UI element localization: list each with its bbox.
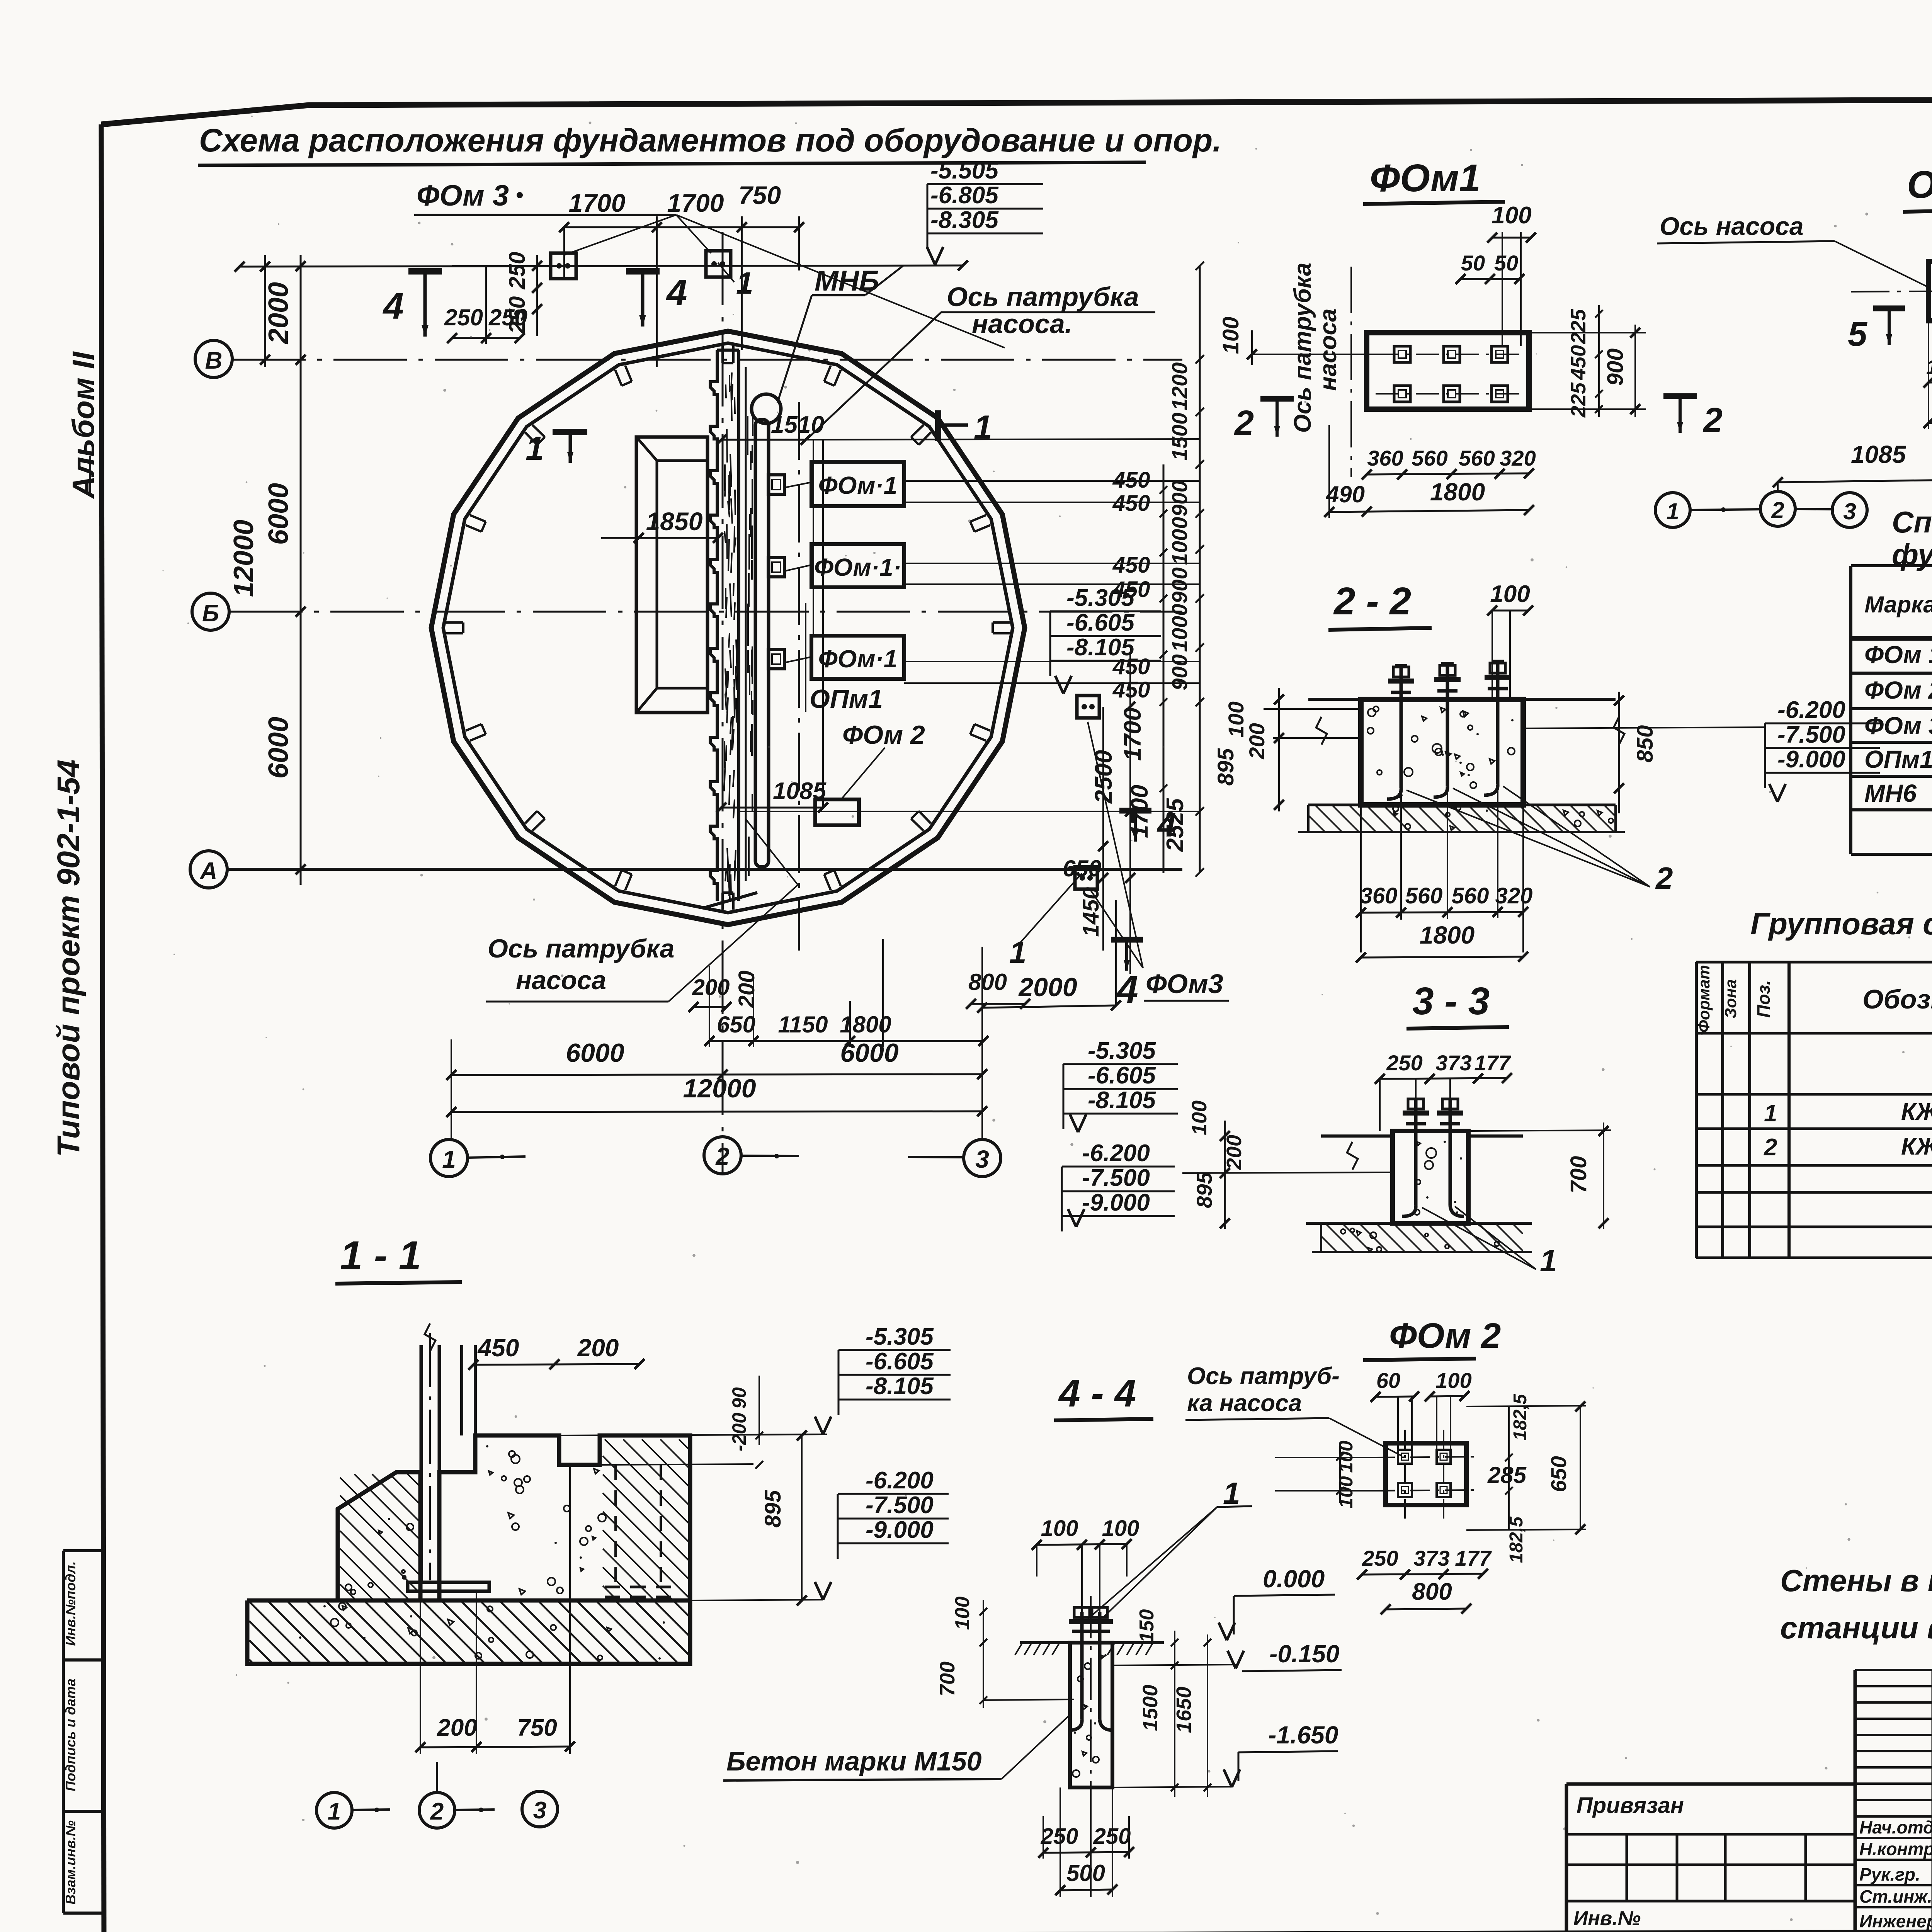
svg-text:650: 650 [1546,1456,1571,1492]
svg-text:Рук.гр.: Рук.гр. [1859,1864,1920,1884]
1-1 embedded pit dashed [614,1465,617,1587]
svg-text:Инв.№: Инв.№ [1573,1907,1641,1930]
svg-text:100: 100 [1435,1368,1471,1393]
svg-text:Схема расположения фундамент: Схема расположения фундаментов под обору… [199,122,1222,158]
svg-text:насоса: насоса [1315,308,1342,391]
svg-text:-9.000: -9.000 [1082,1189,1150,1216]
svg-text:-5.305: -5.305 [1066,585,1135,611]
svg-text:560: 560 [1405,883,1443,908]
svg-text:Ось насоса: Ось насоса [1660,212,1804,240]
svg-text:100: 100 [951,1597,974,1630]
svg-text:-1.650: -1.650 [1268,1721,1338,1749]
section mark 2 left [1260,396,1294,402]
svg-text:895: 895 [760,1490,786,1528]
svg-text:ФОм·1: ФОм·1 [818,471,898,499]
svg-text:А: А [199,858,218,884]
fOm1 axis dashdot lines [1376,354,1522,355]
svg-text:6000: 6000 [263,717,294,779]
4-4 bolts [1080,1612,1084,1719]
svg-text:ФОм 3: ФОм 3 [417,179,509,212]
svg-text:200: 200 [577,1334,619,1362]
svg-text:285: 285 [1487,1462,1527,1488]
svg-text:800: 800 [1412,1578,1452,1605]
svg-text:1 - 1: 1 - 1 [340,1233,421,1278]
wall segment joint notches [993,621,1010,624]
svg-text:560: 560 [1459,446,1495,470]
svg-text:Нач.отд.: Нач.отд. [1859,1817,1932,1837]
svg-text:Б: Б [202,600,219,627]
svg-text:1: 1 [526,430,544,467]
svg-text:Зона: Зона [1721,979,1740,1018]
svg-text:6000: 6000 [840,1038,898,1068]
anchor square plan 2 [768,558,784,577]
1-1 left pedestal (hatched) [338,1472,420,1600]
svg-text:1000: 1000 [1167,517,1192,565]
svg-text:0.000: 0.000 [1263,1565,1325,1593]
svg-text:-6.605: -6.605 [866,1348,934,1375]
svg-text:-8.105: -8.105 [1066,634,1135,661]
svg-text:200: 200 [1223,1135,1246,1170]
svg-text:Ось патрубка: Ось патрубка [1289,263,1316,433]
1-1 axis circles [316,1793,352,1828]
svg-text:50: 50 [1494,251,1518,275]
svg-text:373: 373 [1435,1051,1471,1075]
svg-text:895: 895 [1192,1172,1216,1208]
right anchor square fOm3 lower [1075,867,1097,889]
svg-text:Типовой проект 902-1-54: Типовой проект 902-1-54 [51,759,86,1157]
anchor square fOm3 plan row1 [551,253,576,279]
svg-text:1800: 1800 [1420,921,1475,949]
4-4 pier axis [1090,1596,1092,1808]
svg-text:250: 250 [444,304,483,330]
section mark 1 right [935,410,941,441]
svg-text:1850: 1850 [646,507,703,536]
svg-text:12000: 12000 [228,520,259,597]
central wall with joint notches (zigzag) [710,350,717,901]
svg-text:100: 100 [1041,1516,1078,1541]
svg-text:-6.605: -6.605 [1088,1062,1156,1089]
svg-text:750: 750 [738,181,781,209]
svg-text:6000: 6000 [263,483,294,545]
svg-text:ФОм 1: ФОм 1 [1864,641,1932,668]
svg-text:-9.000: -9.000 [866,1517,934,1543]
svg-text:Подпись и дата: Подпись и дата [63,1679,78,1791]
svg-text:50: 50 [1461,251,1485,275]
svg-text:Инженер: Инженер [1859,1911,1932,1931]
svg-text:100: 100 [1218,317,1243,354]
svg-text:Формат: Формат [1695,965,1713,1032]
svg-text:Ось патрубка: Ось патрубка [947,282,1139,312]
svg-text:3: 3 [1843,498,1856,524]
svg-text:360: 360 [1360,883,1398,908]
svg-text:4 - 4: 4 - 4 [1058,1372,1136,1415]
3-3 block [1393,1131,1468,1223]
long rail column in plan [755,420,769,867]
svg-text:КЖ- 9: КЖ- 9 [1901,1099,1932,1125]
svg-text:3: 3 [975,1145,989,1173]
pump nozzle axis (vertical dash-dot) [798,402,800,951]
2-2 foundation block [1361,699,1523,805]
svg-text:-6.200: -6.200 [1082,1140,1150,1167]
svg-text:2: 2 [1234,404,1254,442]
svg-text:ФОм 2: ФОм 2 [1389,1316,1501,1355]
svg-text:1085: 1085 [773,778,827,804]
svg-text:Взам.инв.№: Взам.инв.№ [63,1820,78,1905]
axis B circle [195,340,232,378]
svg-text:1: 1 [1666,498,1679,524]
svg-text:2: 2 [1771,497,1784,523]
2-2 anchor bolts [1400,666,1403,788]
spec table 1 grid [1849,566,1852,854]
svg-text:650: 650 [717,1012,755,1037]
section mark 4 right upper [1119,808,1151,814]
svg-text:1: 1 [1223,1476,1240,1510]
svg-text:ФОм1: ФОм1 [1370,156,1481,200]
pump station circular wall (16-gon) outer [431,331,1025,925]
svg-text:250: 250 [1362,1546,1398,1570]
svg-text:1800: 1800 [1430,478,1485,506]
pump station circular wall inner line [443,343,1013,913]
right horizontal leader lines [904,480,1200,482]
svg-text:225: 225 [1567,382,1590,418]
axis Б circle [192,593,229,630]
svg-text:700: 700 [936,1662,959,1696]
svg-text:ФОм 2: ФОм 2 [1864,676,1932,704]
plan axis circle 2 [704,1137,741,1174]
svg-text:В: В [205,347,223,374]
svg-text:900: 900 [1167,480,1192,516]
svg-text:насоса.: насоса. [972,309,1072,339]
svg-text:225: 225 [1567,309,1590,344]
top and bottom wall closure [717,349,739,352]
svg-text:100: 100 [1490,581,1530,607]
privyazan box [1566,1782,1855,1786]
svg-text:895: 895 [1213,748,1238,786]
axis A circle [190,851,227,888]
svg-text:-7.500: -7.500 [1777,721,1845,748]
1-1 pump column [420,1345,423,1582]
svg-text:450: 450 [1112,491,1150,516]
right anchor square fOm3 upper [1077,696,1099,718]
svg-text:1200: 1200 [1167,362,1192,411]
anchor square plan 3 [768,650,784,669]
anchor square fOm3 row1 right [706,251,731,277]
svg-text:-5.305: -5.305 [866,1323,934,1350]
section mark 1 left (T down) [553,429,587,435]
svg-text:1700: 1700 [569,189,626,217]
svg-text:Привязан: Привязан [1577,1793,1684,1818]
fOm-1 box 2 [811,544,904,587]
machine pit beveled frame [636,437,707,713]
svg-text:-6.605: -6.605 [1066,609,1135,636]
1-1 base plate [408,1582,489,1591]
svg-text:1: 1 [736,266,753,300]
leader verticals right of wall [813,440,814,634]
svg-text:ФОм 3: ФОм 3 [1864,712,1932,740]
1-1 right block with notch [439,1435,690,1600]
svg-text:100: 100 [1335,1440,1357,1473]
section mark 5 left [1873,306,1905,311]
OPm1 axis dashdot [1851,291,1932,292]
svg-text:1500: 1500 [1167,413,1192,461]
leaders from squares to boxes [784,482,811,488]
svg-text:-200: -200 [728,1413,750,1451]
svg-text:2 - 2: 2 - 2 [1333,580,1411,623]
svg-text:2: 2 [715,1143,730,1170]
svg-text:373: 373 [1413,1546,1449,1570]
svg-text:Н.контр.: Н.контр. [1859,1839,1932,1859]
sump circle MN6 [752,394,781,423]
svg-text:3 - 3: 3 - 3 [1412,980,1490,1023]
svg-text:2000: 2000 [263,282,294,345]
svg-text:-7.500: -7.500 [1082,1165,1150,1191]
axis B line [232,359,1182,361]
svg-text:КЖ-9: КЖ-9 [1901,1133,1932,1160]
section mark 2 right [1663,393,1697,399]
svg-text:Ст.инж.: Ст.инж. [1859,1886,1932,1906]
svg-text:Обозначение: Обозначение [1862,984,1932,1014]
extension verticals [451,1039,452,1140]
svg-text:450: 450 [1112,553,1150,578]
svg-text:560: 560 [1412,446,1447,470]
svg-text:450: 450 [1112,677,1150,702]
fOm1 anchor squares [1394,346,1410,362]
svg-text:1: 1 [328,1798,341,1825]
axis Б line [229,611,1182,613]
svg-text:-8.105: -8.105 [1088,1087,1156,1114]
svg-text:1510: 1510 [771,412,824,438]
svg-text:1: 1 [1009,935,1027,969]
svg-text:500: 500 [1066,1860,1105,1886]
svg-text:ФОм·1: ФОм·1 [818,645,898,673]
plan left dimension lines [264,255,266,367]
sheet frame left border [101,124,104,1932]
svg-text:1000: 1000 [1167,604,1192,652]
svg-text:6000: 6000 [566,1038,624,1068]
OPm1 square [1929,262,1932,321]
2-2 ground slab hatched [1308,804,1616,806]
svg-text:1085: 1085 [1851,440,1906,468]
svg-text:-7.500: -7.500 [866,1492,934,1519]
svg-text:320: 320 [1500,446,1536,470]
svg-text:2000: 2000 [1018,973,1077,1002]
svg-text:150: 150 [1136,1609,1158,1643]
svg-text:100: 100 [1492,202,1531,229]
svg-text:1: 1 [1540,1243,1557,1278]
svg-text:3: 3 [533,1797,546,1824]
svg-text:-5.305: -5.305 [1088,1037,1156,1064]
1-1 base slab [247,1600,690,1664]
svg-text:1700: 1700 [667,189,724,217]
svg-text:450: 450 [477,1334,519,1362]
svg-text:ФОм 2: ФОм 2 [842,720,925,750]
svg-text:250: 250 [505,252,530,290]
fOm-1 box 3 [811,636,904,679]
3-3 bolts [1414,1099,1418,1206]
svg-text:Марка: Марка [1864,592,1932,617]
svg-text:4: 4 [1116,968,1138,1011]
svg-text:ФОм3: ФОм3 [1146,969,1223,999]
svg-text:-8.305: -8.305 [930,207,999,233]
svg-text:Спецификация элементов к сх: Спецификация элементов к схеме расположе… [1892,505,1932,539]
svg-text:ФОм·1·: ФОм·1· [814,553,901,581]
svg-text:2: 2 [1655,861,1673,895]
spec table 2 grid [1695,962,1698,1258]
svg-text:200: 200 [692,975,730,1000]
svg-text:200: 200 [734,971,759,1009]
svg-text:4: 4 [383,286,404,327]
svg-text:4: 4 [666,272,687,313]
wall texture strokes [731,372,732,391]
svg-text:Стены в плане условно показан: Стены в плане условно показаны для насос… [1780,1563,1932,1598]
svg-text:250: 250 [488,304,527,330]
svg-text:-9.000: -9.000 [1777,746,1845,773]
2-2 floor lines [1308,698,1361,701]
svg-text:1650: 1650 [1172,1687,1196,1733]
svg-text:-5.505: -5.505 [930,157,999,184]
sheet frame bottom border [60,1930,1932,1932]
svg-text:-8.105: -8.105 [866,1373,934,1400]
svg-text:Инв.№подл.: Инв.№подл. [63,1561,78,1646]
svg-text:177: 177 [1474,1051,1511,1075]
svg-text:Бетон марки М150: Бетон марки М150 [726,1746,982,1776]
svg-text:-6.805: -6.805 [930,182,999,209]
svg-text:2: 2 [1764,1134,1777,1161]
svg-text:5: 5 [1848,315,1868,354]
svg-text:182,5: 182,5 [1510,1394,1531,1440]
svg-text:700: 700 [1566,1156,1591,1194]
fOm2 anchor squares [1398,1450,1412,1464]
svg-text:177: 177 [1455,1546,1492,1570]
section mark 4 top left [408,268,442,275]
svg-text:ОПм1: ОПм1 [1864,745,1932,773]
svg-text:360: 360 [1367,446,1403,470]
svg-text:ка насоса: ка насоса [1187,1390,1302,1417]
svg-text:2: 2 [430,1798,444,1825]
section mark 4 right lower [1111,937,1143,943]
1-1 right pipe [460,1345,463,1435]
svg-text:1450: 1450 [1078,887,1104,937]
sidebar stamp strip [62,1551,65,1913]
scan noise [953,389,956,391]
svg-text:станции в сборном варианте.: станции в сборном варианте. [1780,1611,1932,1645]
svg-text:Альбом II: Альбом II [66,351,100,499]
svg-text:-6.200: -6.200 [1777,697,1845,723]
svg-text:1500: 1500 [1139,1685,1162,1731]
svg-text:750: 750 [517,1714,557,1741]
svg-text:850: 850 [1633,725,1658,763]
svg-text:100: 100 [1102,1516,1139,1541]
svg-text:60: 60 [1376,1368,1400,1393]
OPm1 axis circles 1 2 3 [1655,493,1690,527]
svg-text:Ось патруб-: Ось патруб- [1187,1363,1340,1389]
title block central signature grid [1854,1670,1857,1932]
svg-text:-6.200: -6.200 [866,1467,934,1494]
svg-text:650: 650 [1063,855,1101,881]
svg-text:-0.150: -0.150 [1269,1640,1339,1668]
svg-text:2525: 2525 [1162,798,1189,852]
3-3 ground slab [1320,1223,1322,1252]
svg-text:90: 90 [728,1387,750,1409]
fOm2 plan rect [1386,1443,1466,1505]
plan axis circle 3 [964,1139,1001,1177]
anchor square plan 1 [768,475,784,494]
svg-text:450: 450 [1112,468,1150,493]
4-4 pier [1070,1643,1112,1787]
svg-text:320: 320 [1495,883,1533,908]
svg-text:560: 560 [1452,883,1489,908]
svg-text:490: 490 [1326,481,1365,507]
svg-text:1: 1 [974,409,992,446]
svg-text:200: 200 [437,1714,477,1741]
4-4 ground lines with soil hatch [1020,1641,1070,1644]
fOm3 leader lines [564,215,676,255]
svg-text:900: 900 [1167,654,1192,690]
svg-text:1150: 1150 [778,1012,828,1037]
3-3 floor lines [1321,1134,1393,1138]
svg-text:ОПм 1: ОПм 1 [1907,163,1932,206]
axis A line [227,868,1182,871]
axis 2 vertical line [722,232,724,1175]
svg-text:200: 200 [1245,723,1269,759]
svg-text:250: 250 [1041,1824,1078,1849]
fOm-1 box 1 [811,462,904,506]
svg-text:МН6: МН6 [1864,779,1917,807]
section mark 4 top right [626,268,660,275]
svg-text:насоса: насоса [516,966,606,995]
svg-text:Групповая спецификация для: Групповая спецификация для монолитных эл… [1750,906,1932,941]
svg-text:1: 1 [442,1145,456,1173]
svg-text:2: 2 [1702,401,1723,440]
svg-text:Поз.: Поз. [1753,980,1774,1017]
fOm2 plan rect [815,799,859,825]
svg-text:100: 100 [1188,1100,1211,1135]
svg-text:250: 250 [1386,1051,1422,1075]
fOm1 plan rectangle [1367,333,1529,409]
svg-text:900: 900 [1603,349,1628,386]
svg-text:1700: 1700 [1119,707,1146,761]
svg-text:ОПм1: ОПм1 [810,684,883,714]
svg-text:12000: 12000 [683,1074,756,1103]
svg-text:900: 900 [1167,567,1192,603]
svg-text:Ось патрубка: Ось патрубка [488,934,674,963]
plan axis circle 1 [430,1139,468,1177]
svg-text:1: 1 [1764,1100,1777,1127]
svg-text:450: 450 [1567,345,1590,380]
sheet frame top border [101,98,1932,124]
svg-text:800: 800 [968,969,1007,995]
